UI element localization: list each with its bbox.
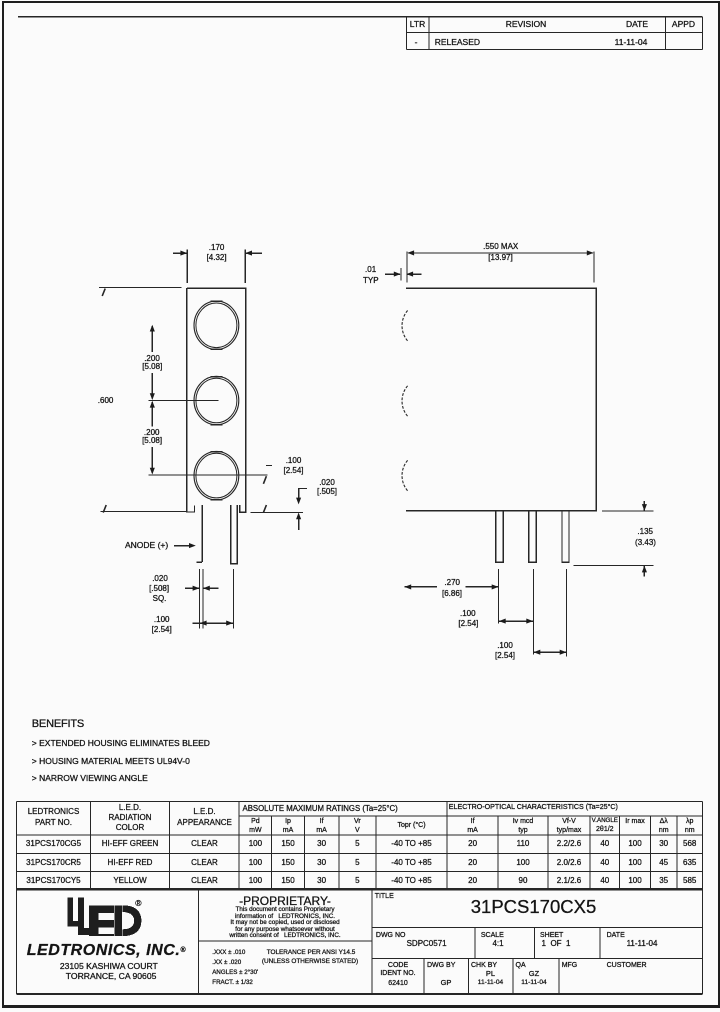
dimension .550 MAX xyxy=(407,250,594,282)
dim text .600 xyxy=(98,397,114,405)
anode label xyxy=(125,541,168,550)
LED lens 1 (front view) xyxy=(194,301,239,349)
title block labels xyxy=(375,893,394,900)
LEDTRONICS logo xyxy=(68,897,142,936)
dim text .100 side lead1-2 xyxy=(460,610,476,618)
benefit bullet 1 xyxy=(32,739,210,748)
dim text .135 xyxy=(637,528,653,536)
dimension .200 (LED1-LED2 spacing) xyxy=(150,325,155,400)
dim text .200 lower xyxy=(144,429,160,437)
dim text .01 TYP xyxy=(365,266,376,274)
dimension .200 (LED2-LED3 spacing) xyxy=(150,401,155,475)
side view dome arc 3 xyxy=(402,460,408,490)
benefit bullet 2 xyxy=(32,757,190,766)
logo registered mark xyxy=(135,899,141,908)
dimension .020 SQ lead width xyxy=(185,569,219,629)
LED lens quadrant marks xyxy=(211,301,223,499)
dim text .200 upper xyxy=(144,355,160,363)
part number title xyxy=(471,898,596,917)
company name xyxy=(27,943,186,959)
LED 2 centerline xyxy=(148,399,218,401)
table row 1 xyxy=(26,840,81,848)
LED 3 centerline xyxy=(148,474,267,476)
benefit bullet 3 xyxy=(32,774,148,783)
dim text .020 SQ xyxy=(152,575,168,583)
dim text .100 right of LED3 xyxy=(286,457,302,465)
dim text .550 MAX xyxy=(483,243,518,251)
tolerance block xyxy=(212,950,245,956)
dimension .100 lead1-lead2 (side) xyxy=(499,619,534,624)
side view lead 3 xyxy=(562,511,569,563)
title block grid xyxy=(17,889,703,994)
front view anode lead (left) xyxy=(196,505,202,562)
dimension .270 xyxy=(404,584,498,589)
side view housing outline xyxy=(406,288,596,511)
spec table grid xyxy=(17,801,703,889)
side view lead 1 xyxy=(496,511,503,563)
dimension .01 TYP xyxy=(385,268,422,281)
benefits heading xyxy=(32,719,84,730)
company address line 1 xyxy=(60,962,158,971)
side view dome arc 2 xyxy=(402,386,408,416)
anode leader arrow xyxy=(174,543,196,548)
dimension .100 lead spacing (front) xyxy=(192,569,233,629)
dim text .270 xyxy=(444,579,460,587)
LED lens 3 (front view) xyxy=(194,451,239,499)
dim text .170 xyxy=(209,244,225,252)
side view dome arc 1 xyxy=(402,311,408,341)
dim text .100 side lead2-3 xyxy=(497,642,513,650)
front view housing outline xyxy=(187,288,246,512)
revision table text xyxy=(406,20,429,29)
front view lead (right) xyxy=(231,505,238,563)
dimension .135 lead length xyxy=(573,501,653,577)
dim text .100 front lead spacing xyxy=(154,616,170,624)
dim text .020 housing step xyxy=(319,479,335,487)
sheet top frame line xyxy=(18,16,703,18)
side view lead 2 xyxy=(529,511,537,563)
dimension .100 (LED3 center to housing bottom) ticks xyxy=(251,466,303,513)
table header texts xyxy=(28,808,80,816)
proprietary block xyxy=(239,895,331,907)
dimension .100 lead2-lead3 (side) xyxy=(533,650,566,655)
dimension .170 top width xyxy=(173,250,262,284)
table row 2 xyxy=(26,859,81,867)
table row 3 xyxy=(26,877,80,885)
lead extension lines (side view) xyxy=(499,569,567,657)
LED lens 2 (front view) xyxy=(194,376,239,424)
dimension .020 housing step (right side) xyxy=(296,489,307,531)
company address line 2 xyxy=(66,972,157,981)
dimension .600 extension lines and ticks xyxy=(99,287,187,512)
revision table grid xyxy=(407,17,703,50)
